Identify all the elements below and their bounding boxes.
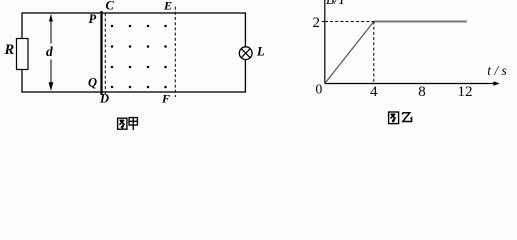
svg-text:8: 8 [418,84,426,100]
svg-text:F: F [161,91,170,105]
svg-text:t / s: t / s [487,63,507,78]
svg-text:D: D [99,92,109,106]
svg-text:2: 2 [313,15,321,31]
svg-text:P: P [89,12,97,26]
svg-text:R: R [4,42,15,58]
svg-text:B/T: B/T [326,0,347,7]
svg-text:Q: Q [88,75,97,89]
svg-text:d: d [46,44,53,59]
svg-text:0: 0 [316,82,323,97]
svg-text:4: 4 [370,84,378,100]
svg-text:E: E [163,0,172,12]
svg-text:C: C [106,0,115,13]
svg-text:12: 12 [458,84,473,100]
svg-text:L: L [256,45,265,59]
